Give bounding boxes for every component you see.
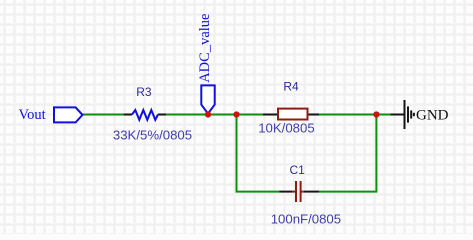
svg-text:100nF/0805: 100nF/0805 [271, 212, 341, 227]
svg-text:R4: R4 [283, 79, 299, 93]
svg-text:C1: C1 [290, 163, 306, 177]
svg-text:R3: R3 [136, 85, 152, 99]
svg-text:33K/5%/0805: 33K/5%/0805 [113, 128, 192, 143]
svg-text:Vout: Vout [19, 107, 46, 123]
svg-text:GND: GND [416, 108, 449, 124]
svg-text:10K/0805: 10K/0805 [258, 120, 314, 135]
svg-text:ADC_value: ADC_value [197, 14, 213, 83]
